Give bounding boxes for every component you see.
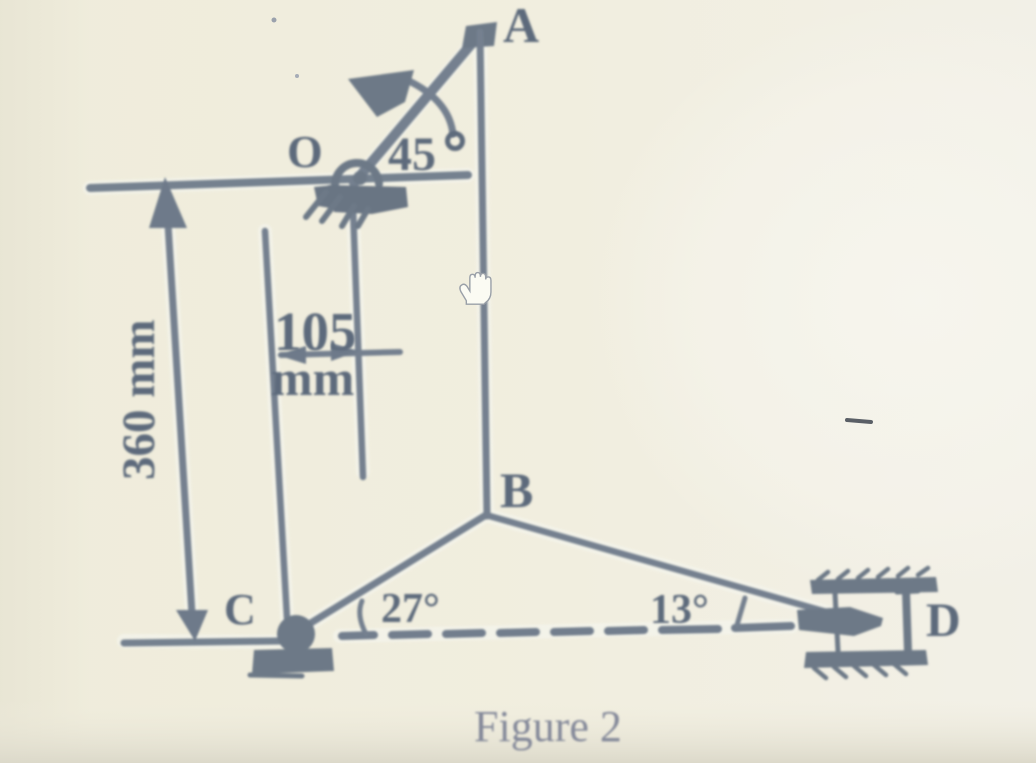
- pivot O base block: [328, 185, 408, 214]
- svg-text:45: 45: [388, 128, 436, 181]
- ink speck top: [272, 18, 277, 23]
- slider D top rail hatching: [818, 568, 928, 580]
- slider D bottom rail hatching: [814, 664, 906, 678]
- halo glow around main strokes: [90, 32, 858, 642]
- extension line center below O: [353, 208, 363, 477]
- pivot O semicircle cap: [335, 163, 379, 186]
- extension line left (105mm): [265, 231, 287, 618]
- 27 degree angle tick: [360, 601, 366, 634]
- hand cursor artifact: [460, 273, 491, 305]
- pivot C hatch base line: [250, 675, 302, 676]
- slider D top rail: [810, 577, 938, 594]
- 13 degree angle tick: [737, 598, 745, 625]
- svg-text:Figure 2: Figure 2: [474, 702, 622, 751]
- dimension line 105mm horizontal: [281, 352, 400, 355]
- link BC: [301, 515, 486, 629]
- slider D left guide line: [835, 593, 838, 651]
- pivot O hatching: [306, 192, 368, 226]
- bottom shading strip: [0, 700, 1036, 763]
- svg-text:27°: 27°: [381, 586, 440, 632]
- arrowhead down (360mm bottom): [176, 610, 208, 641]
- dimension line 360mm vertical: [168, 224, 192, 614]
- svg-text:D: D: [926, 594, 961, 647]
- svg-text:A: A: [503, 0, 539, 53]
- svg-text:13°: 13°: [650, 587, 709, 633]
- horizontal reference line through O: [90, 175, 468, 188]
- svg-text:mm: mm: [271, 350, 354, 406]
- left vignette: [0, 0, 90, 763]
- slider D right guide line: [906, 591, 908, 651]
- arrowhead left (105mm): [277, 346, 306, 364]
- link BD: [486, 515, 858, 621]
- right side light patch: [590, 0, 1036, 600]
- pivot C base plate: [252, 648, 334, 674]
- slider D bottom rail: [804, 650, 928, 668]
- rotation arrow arc at crank: [407, 80, 453, 134]
- pivot C pin blob: [277, 615, 315, 653]
- slider D right guide T-cap: [897, 591, 918, 592]
- pivot O pin: [353, 171, 367, 185]
- svg-text:C: C: [224, 585, 256, 634]
- dashed horizontal reference line C to D: [342, 626, 791, 636]
- joint blob at A: [462, 22, 497, 48]
- rotation arrowhead: [348, 70, 414, 117]
- slider D piston rod: [797, 607, 883, 636]
- stray dash mark right side: [847, 420, 871, 422]
- ink speck upper middle: [295, 74, 299, 78]
- pivot O left lump: [314, 185, 336, 209]
- svg-text:B: B: [500, 462, 533, 518]
- vertical link AB: [480, 32, 487, 516]
- arrowhead right (105mm): [331, 343, 359, 361]
- arrowhead up (360mm top): [149, 177, 187, 228]
- degree ring of 45: [448, 134, 463, 149]
- svg-text:360 mm: 360 mm: [113, 319, 165, 480]
- crank link OA: [354, 35, 479, 183]
- ground baseline left of C: [124, 641, 282, 643]
- svg-text:O: O: [287, 126, 323, 177]
